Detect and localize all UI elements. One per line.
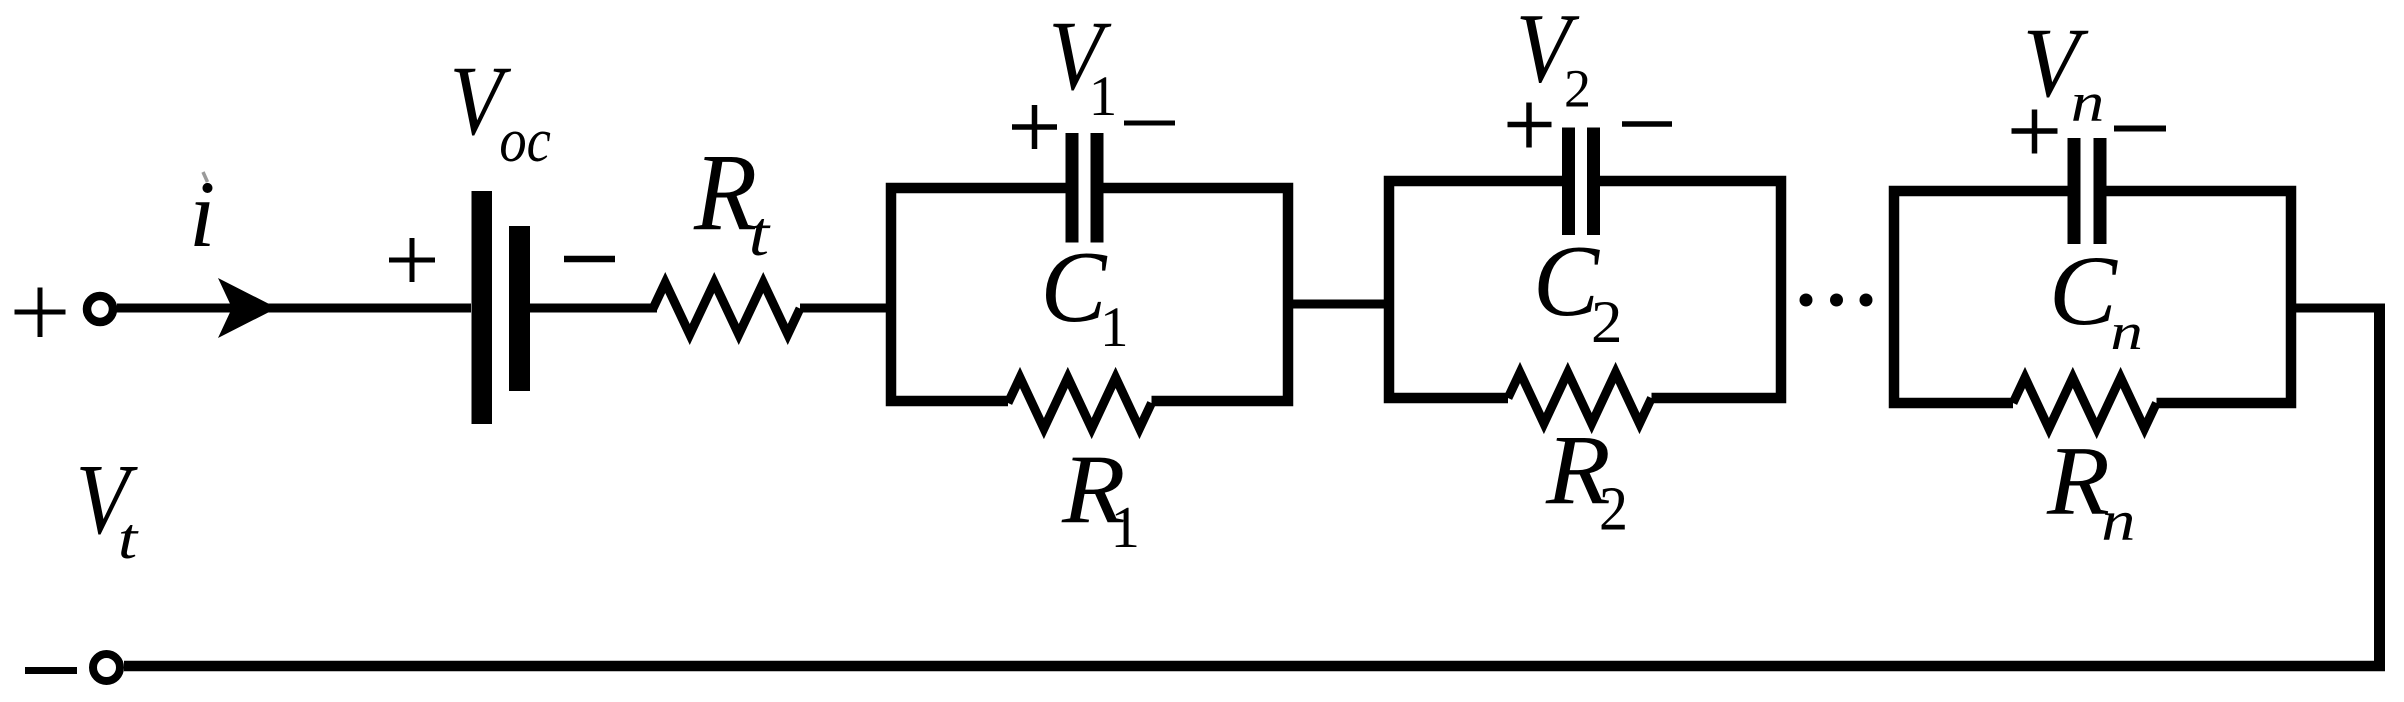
wire: Rt to RC network 1 [800, 304, 891, 313]
node: negative terminal circle [93, 654, 120, 681]
wire: RC1 to RC2 [1293, 300, 1389, 309]
label + (positive terminal) [15, 288, 66, 338]
faint artifact above i [203, 172, 208, 182]
resistor R1 [1008, 378, 1152, 429]
svg-text:oc: oc [499, 106, 551, 175]
capacitor Cn: left plate [2068, 138, 2081, 244]
capacitor C1: left plate [1066, 133, 1079, 243]
svg-text:t: t [749, 198, 771, 269]
svg-text:1: 1 [1100, 296, 1129, 359]
RC network 1: box wires [886, 183, 1294, 407]
RC network n: box wires [1889, 186, 2297, 409]
node: positive terminal circle [87, 296, 113, 322]
svg-text:t: t [118, 506, 140, 570]
svg-text:i: i [189, 161, 215, 267]
svg-text:n: n [2110, 303, 2143, 360]
resistor Rn [2013, 378, 2157, 429]
label + (C2) [1508, 103, 1552, 148]
label + (Cn) [2012, 110, 2058, 154]
svg-text:n: n [2071, 72, 2105, 134]
svg-text:n: n [2101, 489, 2135, 552]
wire: battery to Rt [530, 304, 657, 313]
battery Voc: left plate [472, 191, 493, 424]
wire: bottom return [124, 661, 2385, 672]
label + (battery) [389, 238, 435, 282]
resistor Rt [653, 283, 800, 335]
capacitor C2: right plate [1587, 128, 1600, 236]
wire: right vertical rail [2374, 304, 2385, 667]
label − (C2) [1622, 121, 1672, 127]
capacitor Cn: right plate [2094, 138, 2107, 244]
resistor R2 [1508, 373, 1652, 424]
svg-text:2: 2 [1564, 59, 1591, 119]
current arrow [218, 278, 277, 338]
svg-text:C: C [1533, 224, 1600, 338]
capacitor C1: right plate [1091, 133, 1104, 243]
label + (C1) [1012, 105, 1057, 149]
label − (battery) [564, 256, 615, 263]
capacitor C2: left plate [1562, 128, 1575, 236]
svg-text:1: 1 [1089, 65, 1118, 128]
label − (C1) [1124, 121, 1175, 126]
svg-text:C: C [2049, 235, 2119, 346]
wire: RC n to right rail [2296, 304, 2385, 313]
svg-text:C: C [1041, 230, 1108, 344]
wire: positive terminal to battery [117, 304, 471, 313]
label − (Cn) [2114, 126, 2166, 132]
svg-text:1: 1 [1111, 494, 1141, 560]
svg-text:R: R [693, 132, 757, 254]
svg-text:2: 2 [1591, 289, 1622, 355]
dots: continuation [1800, 294, 1873, 307]
label − (negative terminal) [25, 667, 77, 674]
RC network 2: box wires [1384, 176, 1787, 404]
svg-text:2: 2 [1599, 474, 1628, 544]
battery Voc: right plate [509, 226, 530, 391]
